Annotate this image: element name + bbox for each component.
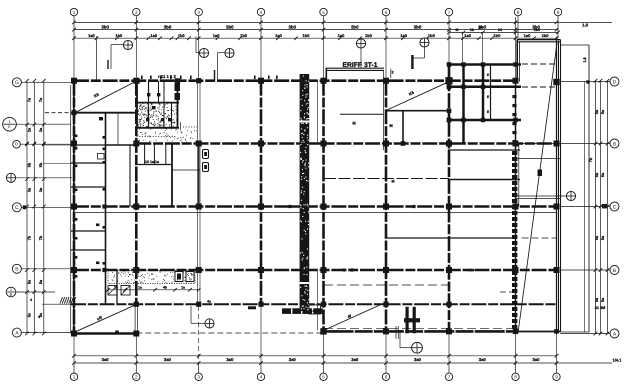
svg-text:8: 8 bbox=[517, 10, 520, 15]
svg-text:1: 1 bbox=[73, 374, 76, 379]
svg-text:1a0: 1a0 bbox=[464, 33, 471, 38]
svg-text:5c: 5c bbox=[28, 313, 32, 317]
svg-text:2: 2 bbox=[135, 374, 138, 379]
svg-text:2: 2 bbox=[135, 10, 138, 15]
svg-text:1a: 1a bbox=[114, 286, 118, 290]
svg-text:4a: 4a bbox=[207, 300, 211, 304]
svg-text:1a: 1a bbox=[181, 286, 185, 290]
svg-text:1.8: 1.8 bbox=[583, 57, 587, 62]
svg-text:5c: 5c bbox=[39, 313, 43, 317]
svg-text:3a0: 3a0 bbox=[289, 357, 297, 362]
svg-text:4: 4 bbox=[260, 374, 263, 379]
svg-text:4d: 4d bbox=[312, 309, 316, 313]
svg-text:41 4M: 41 4M bbox=[595, 306, 606, 310]
svg-text:6: 6 bbox=[385, 10, 388, 15]
svg-text:1b0: 1b0 bbox=[428, 33, 436, 38]
svg-text:9: 9 bbox=[555, 374, 558, 379]
svg-text:D: D bbox=[15, 142, 18, 147]
svg-text:1a0: 1a0 bbox=[213, 33, 220, 38]
svg-text:1/4.1: 1/4.1 bbox=[613, 358, 623, 363]
svg-text:7b: 7b bbox=[589, 157, 593, 162]
svg-text:04: 04 bbox=[498, 28, 502, 32]
svg-text:10 1a 1a: 10 1a 1a bbox=[145, 160, 160, 164]
svg-text:9: 9 bbox=[557, 10, 560, 15]
svg-text:1: 1 bbox=[73, 10, 76, 15]
svg-text:3b0: 3b0 bbox=[164, 25, 172, 30]
svg-text:1b0: 1b0 bbox=[303, 33, 311, 38]
svg-text:3a0: 3a0 bbox=[102, 357, 110, 362]
svg-text:7: 7 bbox=[448, 10, 451, 15]
svg-text:1a0: 1a0 bbox=[524, 33, 531, 38]
svg-text:1b0: 1b0 bbox=[534, 28, 540, 32]
svg-text:3a0: 3a0 bbox=[226, 357, 234, 362]
svg-text:4: 4 bbox=[260, 10, 263, 15]
svg-text:B: B bbox=[10, 292, 13, 297]
svg-text:5b: 5b bbox=[28, 162, 32, 167]
svg-text:5: 5 bbox=[322, 10, 325, 15]
svg-text:4b: 4b bbox=[163, 286, 167, 290]
svg-text:4: 4 bbox=[30, 298, 32, 302]
svg-text:8: 8 bbox=[514, 374, 517, 379]
svg-text:M: M bbox=[392, 180, 395, 184]
svg-text:1a: 1a bbox=[138, 286, 142, 290]
svg-text:3a0: 3a0 bbox=[533, 357, 541, 362]
svg-text:3a0: 3a0 bbox=[479, 357, 487, 362]
svg-text:6: 6 bbox=[385, 374, 388, 379]
svg-text:7b: 7b bbox=[28, 235, 32, 240]
svg-text:3a0: 3a0 bbox=[351, 357, 359, 362]
svg-text:3: 3 bbox=[197, 374, 200, 379]
svg-text:1a0: 1a0 bbox=[150, 33, 157, 38]
svg-text:3b0: 3b0 bbox=[351, 25, 359, 30]
svg-text:3b0: 3b0 bbox=[226, 25, 234, 30]
svg-text:1.8: 1.8 bbox=[582, 23, 588, 28]
svg-text:C: C bbox=[15, 205, 19, 211]
svg-text:1b0: 1b0 bbox=[178, 33, 186, 38]
svg-text:E: E bbox=[8, 124, 11, 129]
svg-text:1a0: 1a0 bbox=[88, 33, 95, 38]
svg-text:5: 5 bbox=[322, 374, 325, 379]
svg-text:3b0: 3b0 bbox=[101, 25, 109, 30]
svg-text:3b0: 3b0 bbox=[414, 25, 422, 30]
svg-text:3a0: 3a0 bbox=[414, 357, 422, 362]
svg-text:G: G bbox=[15, 80, 19, 86]
svg-text:3b0: 3b0 bbox=[288, 25, 296, 30]
svg-text:2: 2 bbox=[391, 71, 393, 75]
svg-text:1b0: 1b0 bbox=[542, 33, 550, 38]
svg-text:1b0: 1b0 bbox=[493, 33, 501, 38]
svg-text:7b: 7b bbox=[39, 235, 43, 240]
svg-text:1b0: 1b0 bbox=[115, 33, 123, 38]
svg-text:5b: 5b bbox=[39, 162, 43, 167]
svg-text:C: C bbox=[613, 204, 617, 210]
svg-text:3a0: 3a0 bbox=[164, 357, 172, 362]
svg-text:1b0: 1b0 bbox=[365, 33, 373, 38]
svg-text:M: M bbox=[456, 28, 459, 32]
svg-text:7: 7 bbox=[448, 374, 451, 379]
svg-text:D: D bbox=[613, 79, 617, 85]
svg-text:3: 3 bbox=[197, 10, 200, 15]
